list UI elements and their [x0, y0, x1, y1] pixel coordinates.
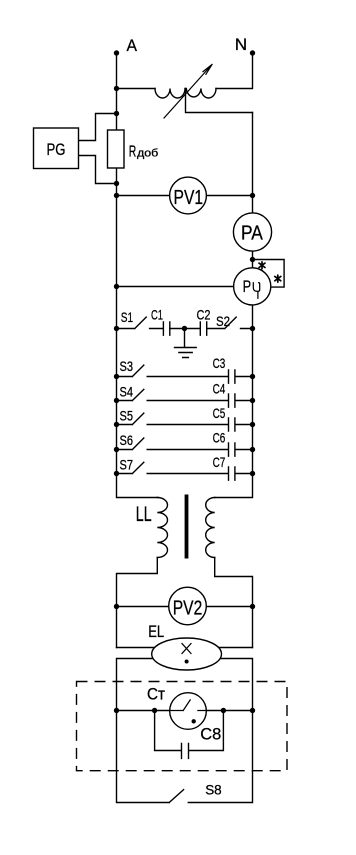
switch S3 row	[117, 365, 253, 383]
svg-text:доб: доб	[137, 148, 158, 160]
svg-text:PG: PG	[47, 140, 66, 159]
switch S1	[117, 317, 164, 328]
transformer left winding bottom lead	[117, 558, 158, 648]
svg-text:PV1: PV1	[174, 186, 204, 209]
node A dot	[114, 50, 119, 55]
asterisk terminal 2	[275, 275, 281, 282]
wire bottom rail with switch S8	[117, 711, 253, 803]
wire PV1 row	[117, 195, 253, 197]
junction dots C8 branch	[152, 708, 157, 713]
svg-text:C4: C4	[213, 381, 226, 397]
wire counter row	[117, 710, 253, 712]
inductor L1 variable autotransformer winding	[155, 89, 216, 99]
switch S6 row	[117, 438, 253, 456]
svg-text:A: A	[127, 36, 138, 55]
counter Ct circle	[170, 693, 207, 730]
svg-text:PV2: PV2	[173, 596, 203, 619]
svg-text:EL: EL	[148, 622, 164, 641]
transformer right winding bottom lead	[215, 558, 253, 648]
wire inductor right end to node N	[216, 53, 253, 89]
svg-text:R: R	[129, 144, 137, 161]
dashed enclosure box	[77, 682, 288, 771]
svg-text:PA: PA	[241, 221, 263, 244]
counter Ct inner contact	[170, 700, 206, 711]
voltmeter PV1 circle	[170, 177, 207, 214]
transformer core	[185, 495, 189, 559]
svg-text:C2: C2	[197, 307, 211, 323]
svg-text:S7: S7	[120, 456, 134, 472]
lamp EL inner dot	[185, 660, 189, 664]
wire PV2 rail	[117, 606, 253, 608]
asterisk terminal 1	[259, 262, 281, 282]
wire lamp EL lower	[117, 659, 253, 711]
wattmeter P-phi voltage wire to left line	[117, 286, 234, 288]
svg-text:C3: C3	[213, 355, 226, 371]
wire C1 to ground node	[170, 328, 200, 330]
svg-text:S2: S2	[216, 313, 230, 329]
arrow of variable inductor	[164, 65, 212, 119]
junction dots right line	[250, 193, 255, 198]
switch S4 row	[117, 389, 253, 407]
capacitor C2 plates	[200, 322, 206, 335]
PG box	[34, 128, 79, 169]
switch S7 row	[117, 462, 253, 480]
voltmeter PV2 circle	[169, 587, 207, 625]
wire right main vertical	[215, 113, 253, 498]
switch S2	[207, 317, 253, 328]
ammeter PA circle	[233, 213, 271, 251]
wire to variable inductor	[117, 88, 156, 90]
capacitor C8 loop	[155, 711, 224, 759]
counter Ct inner dot	[192, 719, 196, 723]
svg-text:C7: C7	[213, 454, 226, 470]
svg-text:C6: C6	[213, 430, 226, 446]
svg-text:S3: S3	[120, 358, 134, 374]
svg-text:C5: C5	[213, 405, 226, 421]
wattmeter P-phi right loop wire with asterisk terminals	[253, 260, 285, 288]
wire inductor tap down and right	[186, 89, 253, 113]
svg-text:S8: S8	[205, 781, 222, 797]
svg-text:C1: C1	[151, 306, 163, 322]
lamp EL cross	[182, 644, 191, 654]
transformer left winding	[157, 498, 167, 558]
capacitor C1 plates	[163, 322, 169, 335]
wire lamp EL upper	[117, 647, 253, 649]
wattmeter P-phi circle	[234, 268, 271, 305]
junction dots left line	[114, 86, 119, 91]
wire left main vertical A to transformer	[117, 53, 159, 498]
resistor Rdob body	[108, 130, 125, 168]
svg-text:N: N	[235, 35, 247, 54]
svg-text:C8: C8	[200, 724, 221, 743]
PG box wires	[79, 114, 117, 184]
node N dot	[250, 50, 255, 55]
wattmeter P-phi glyph phi	[253, 283, 259, 299]
lamp EL ellipse	[152, 638, 222, 670]
switch S5 row	[117, 413, 253, 431]
ground symbol	[175, 329, 197, 358]
svg-text:LL: LL	[136, 503, 152, 526]
svg-text:S5: S5	[120, 408, 134, 424]
transformer right winding	[206, 498, 215, 558]
svg-text:P: P	[243, 277, 252, 296]
svg-text:S4: S4	[120, 384, 134, 400]
svg-text:S6: S6	[120, 432, 134, 448]
svg-text:Ст: Ст	[147, 684, 165, 703]
svg-text:S1: S1	[121, 309, 133, 325]
junction dot ground node	[182, 326, 187, 331]
